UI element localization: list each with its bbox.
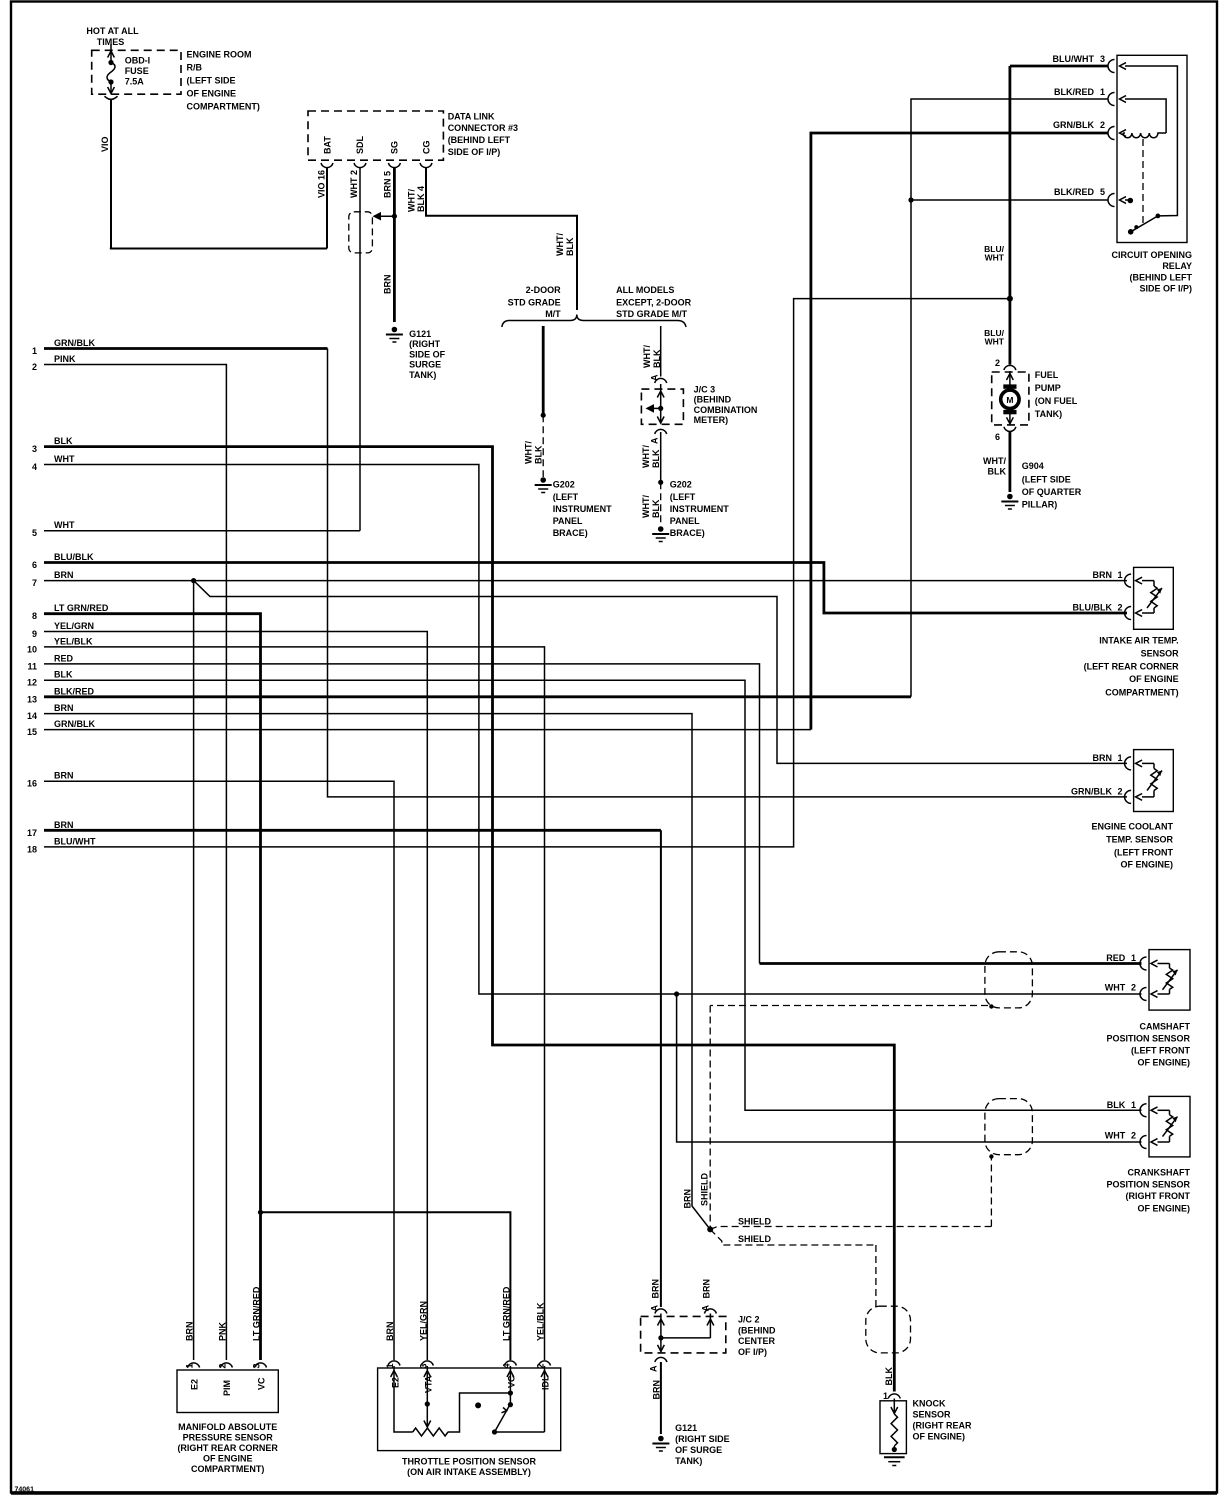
svg-text:POSITION SENSOR: POSITION SENSOR	[1106, 1179, 1190, 1189]
wire BRN J/C2 to G121	[660, 1362, 662, 1434]
svg-text:(LEFT FRONT: (LEFT FRONT	[1114, 847, 1173, 857]
svg-text:(LEFT SIDE: (LEFT SIDE	[1022, 475, 1071, 485]
svg-text:CONNECTOR #3: CONNECTOR #3	[448, 123, 518, 133]
svg-text:1: 1	[1100, 87, 1105, 97]
svg-text:YEL/GRN: YEL/GRN	[54, 621, 94, 631]
svg-text:M: M	[1006, 395, 1013, 405]
svg-text:OF ENGINE: OF ENGINE	[203, 1454, 253, 1464]
svg-text:VIO 16: VIO 16	[317, 170, 327, 198]
svg-text:GRN/BLK: GRN/BLK	[54, 338, 95, 348]
svg-text:16: 16	[27, 779, 37, 789]
svg-text:TANK): TANK)	[1035, 409, 1062, 419]
svg-text:SIDE OF: SIDE OF	[409, 349, 446, 359]
shield crankshaft cable	[985, 1099, 1033, 1155]
svg-text:BLK: BLK	[54, 670, 73, 680]
ground G202 right	[658, 526, 664, 532]
svg-text:8: 8	[32, 611, 37, 621]
svg-text:CAMSHAFT: CAMSHAFT	[1140, 1022, 1191, 1032]
svg-text:OF ENGINE): OF ENGINE)	[1120, 859, 1173, 869]
svg-text:OF QUARTER: OF QUARTER	[1022, 487, 1082, 497]
svg-text:VTA: VTA	[423, 1375, 433, 1393]
svg-text:CRANKSHAFT: CRANKSHAFT	[1128, 1167, 1191, 1177]
wire W3 BLK to knock sensor	[44, 447, 894, 1392]
wire W13 BLK/RED to circuit opening relay pin 1	[911, 99, 1109, 697]
svg-text:DATA LINK: DATA LINK	[448, 112, 495, 122]
svg-text:CENTER: CENTER	[738, 1336, 776, 1346]
svg-text:OF SURGE: OF SURGE	[675, 1445, 722, 1455]
wire W4 WHT branch to crankshaft position sensor pin 2	[677, 994, 1142, 1142]
svg-text:1: 1	[1118, 570, 1123, 580]
svg-text:RED: RED	[54, 653, 74, 663]
svg-text:(RIGHT REAR CORNER: (RIGHT REAR CORNER	[177, 1443, 278, 1453]
svg-text:LT GRN/RED: LT GRN/RED	[252, 1286, 262, 1341]
svg-text:74061: 74061	[15, 1487, 35, 1494]
svg-text:BRN: BRN	[1093, 570, 1113, 580]
svg-text:WHT: WHT	[1105, 1131, 1126, 1141]
svg-text:5: 5	[1100, 187, 1105, 197]
svg-text:GRN/BLK: GRN/BLK	[1071, 787, 1112, 797]
svg-text:THROTTLE POSITION SENSOR: THROTTLE POSITION SENSOR	[402, 1457, 537, 1467]
svg-text:OF ENGINE): OF ENGINE)	[1137, 1057, 1190, 1067]
svg-text:BRN: BRN	[54, 570, 74, 580]
svg-text:COMBINATION: COMBINATION	[694, 405, 758, 415]
wire BLU/WHT relay to fuel pump	[1009, 66, 1012, 365]
svg-text:15: 15	[27, 727, 37, 737]
node junction W7	[191, 578, 196, 583]
svg-text:PUMP: PUMP	[1035, 383, 1061, 393]
svg-text:(BEHIND: (BEHIND	[738, 1325, 776, 1335]
svg-text:PNK: PNK	[217, 1321, 227, 1341]
TPS potentiometer	[394, 1380, 413, 1432]
svg-text:PANEL: PANEL	[553, 516, 583, 526]
svg-text:BRN: BRN	[383, 275, 393, 295]
ground G121 (SG)	[392, 327, 398, 333]
svg-text:RED: RED	[1106, 953, 1126, 963]
node junction W13	[908, 197, 913, 202]
svg-text:STD GRADE: STD GRADE	[508, 297, 561, 307]
svg-text:WHT/: WHT/	[642, 345, 652, 368]
wire WHT/BLK all-models branch	[660, 326, 662, 377]
wire W17 BRN to J/C 2 pin A	[660, 830, 662, 1307]
wire VIO fuse to DLC BAT	[110, 100, 112, 249]
svg-text:E2: E2	[189, 1379, 199, 1390]
svg-text:(RIGHT REAR: (RIGHT REAR	[913, 1420, 972, 1430]
wire W9 YEL/GRN to TPS VTA	[44, 632, 427, 1361]
svg-text:11: 11	[27, 661, 37, 671]
svg-text:SENSOR: SENSOR	[1141, 649, 1180, 659]
svg-text:1: 1	[883, 1391, 888, 1401]
svg-text:BLK: BLK	[988, 467, 1007, 477]
ground G904	[1007, 494, 1013, 500]
svg-text:INSTRUMENT: INSTRUMENT	[553, 504, 612, 514]
svg-text:WHT/: WHT/	[555, 233, 565, 256]
svg-text:EXCEPT, 2-DOOR: EXCEPT, 2-DOOR	[616, 297, 692, 307]
svg-text:BLK: BLK	[565, 237, 575, 256]
sensor intake air temp box	[1134, 567, 1174, 629]
svg-text:COMPARTMENT): COMPARTMENT)	[1105, 687, 1178, 697]
ground knock sensor	[884, 1456, 905, 1458]
svg-text:5: 5	[32, 528, 37, 538]
svg-text:BLK: BLK	[54, 436, 73, 446]
svg-text:BRN: BRN	[683, 1189, 693, 1209]
svg-text:BLK/RED: BLK/RED	[1054, 87, 1094, 97]
svg-text:YEL/BLK: YEL/BLK	[54, 636, 93, 646]
svg-text:BRN: BRN	[652, 1380, 662, 1400]
wire shield to crankshaft	[710, 1227, 991, 1230]
shield knock cable	[866, 1306, 911, 1353]
wire shield vertical	[709, 1006, 711, 1230]
svg-text:SURGE: SURGE	[409, 360, 441, 370]
svg-text:7: 7	[32, 578, 37, 588]
svg-text:A: A	[649, 1365, 659, 1372]
wire W8 LT GRN/RED branch to TPS VC	[261, 1212, 511, 1360]
TPS floating contact dot	[475, 1402, 481, 1408]
wire WHT/BLK below J/C3	[660, 432, 662, 482]
pin A bottom J/C2	[655, 1357, 667, 1362]
svg-text:(LEFT: (LEFT	[670, 492, 696, 502]
svg-text:WHT/: WHT/	[524, 441, 534, 464]
svg-text:SIDE OF I/P): SIDE OF I/P)	[1139, 284, 1192, 294]
svg-text:G202: G202	[553, 480, 575, 490]
svg-text:6: 6	[32, 560, 37, 570]
svg-text:PANEL: PANEL	[670, 516, 700, 526]
svg-text:RELAY: RELAY	[1162, 261, 1192, 271]
svg-text:2: 2	[1100, 120, 1105, 130]
shield camshaft cable	[985, 952, 1033, 1008]
svg-text:PRESSURE SENSOR: PRESSURE SENSOR	[183, 1433, 274, 1443]
svg-text:ENGINE COOLANT: ENGINE COOLANT	[1091, 822, 1173, 832]
sensor crankshaft position box	[1149, 1096, 1190, 1157]
svg-text:PINK: PINK	[54, 354, 76, 364]
svg-text:G202: G202	[670, 480, 692, 490]
TPS idle switch	[492, 1429, 497, 1434]
svg-text:YEL/GRN: YEL/GRN	[418, 1301, 428, 1341]
wire W5 WHT to DLC SDL	[44, 530, 360, 532]
svg-text:METER): METER)	[694, 415, 729, 425]
ground G121 lower	[658, 1436, 664, 1442]
svg-text:(RIGHT SIDE: (RIGHT SIDE	[675, 1434, 730, 1444]
svg-text:LT GRN/RED: LT GRN/RED	[54, 603, 109, 613]
junction connector J/C 2 box	[641, 1316, 726, 1353]
svg-text:INSTRUMENT: INSTRUMENT	[670, 504, 729, 514]
svg-text:SIDE OF I/P): SIDE OF I/P)	[448, 147, 501, 157]
svg-text:HOT AT ALL: HOT AT ALL	[86, 26, 139, 36]
svg-text:J/C 2: J/C 2	[738, 1315, 760, 1325]
svg-text:FUSE: FUSE	[125, 66, 149, 76]
svg-text:PILLAR): PILLAR)	[1022, 500, 1058, 510]
svg-text:WHT/: WHT/	[641, 445, 651, 468]
svg-text:BLU/BLK: BLU/BLK	[1073, 603, 1113, 613]
TPS VC node	[509, 1380, 511, 1405]
svg-text:2: 2	[995, 358, 1000, 368]
svg-text:BLK: BLK	[534, 445, 544, 464]
svg-text:(LEFT REAR CORNER: (LEFT REAR CORNER	[1084, 662, 1179, 672]
svg-text:BRN: BRN	[54, 703, 74, 713]
wire shield to knock sensor	[710, 1229, 876, 1245]
svg-text:COMPARTMENT): COMPARTMENT)	[187, 102, 260, 112]
svg-text:(LEFT FRONT: (LEFT FRONT	[1131, 1046, 1190, 1056]
svg-text:(ON FUEL: (ON FUEL	[1035, 396, 1078, 406]
wire W7 BRN to intake air temp sensor pin 1	[44, 580, 1127, 582]
wire W1 GRN/BLK stub	[44, 347, 328, 350]
node junction on SG wire	[392, 214, 397, 219]
svg-text:BRACE): BRACE)	[553, 528, 588, 538]
connector DLC3 box	[308, 111, 443, 160]
svg-text:OBD-I: OBD-I	[125, 56, 151, 66]
svg-text:2: 2	[1131, 983, 1136, 993]
wire W12 BLK to crankshaft position sensor pin 1	[44, 680, 1142, 1110]
svg-text:(BEHIND LEFT: (BEHIND LEFT	[448, 135, 511, 145]
svg-text:BLK/RED: BLK/RED	[54, 686, 94, 696]
wire W14 BRN toward J/C 2	[44, 714, 710, 1230]
svg-text:ALL MODELS: ALL MODELS	[616, 285, 674, 295]
svg-text:G121: G121	[409, 329, 431, 339]
svg-text:VIO: VIO	[100, 136, 110, 152]
fuel pump connector pin 6	[1004, 427, 1016, 432]
svg-text:2-DOOR: 2-DOOR	[526, 285, 562, 295]
svg-text:SHIELD: SHIELD	[738, 1217, 772, 1227]
sensor TPS box	[378, 1368, 561, 1451]
relay actuation dashed link	[1142, 139, 1144, 223]
svg-text:A: A	[650, 437, 660, 444]
wire W15 GRN/BLK stub	[44, 729, 811, 731]
svg-text:9: 9	[32, 629, 37, 639]
inline connector on SDL wire	[349, 212, 373, 253]
svg-text:1: 1	[1118, 753, 1123, 763]
svg-text:2: 2	[1131, 1131, 1136, 1141]
svg-text:(LEFT SIDE: (LEFT SIDE	[187, 76, 236, 86]
svg-text:ENGINE ROOM: ENGINE ROOM	[187, 50, 252, 60]
svg-text:TANK): TANK)	[675, 1456, 702, 1466]
svg-text:6: 6	[995, 432, 1000, 442]
svg-text:CG: CG	[422, 141, 432, 155]
svg-text:3: 3	[1100, 54, 1105, 64]
svg-text:(LEFT: (LEFT	[553, 492, 579, 502]
svg-text:WHT: WHT	[1105, 983, 1126, 993]
svg-text:GRN/BLK: GRN/BLK	[54, 719, 95, 729]
svg-text:(BEHIND LEFT: (BEHIND LEFT	[1130, 273, 1193, 283]
svg-text:BRN: BRN	[385, 1322, 395, 1342]
svg-text:BRN: BRN	[1093, 753, 1113, 763]
svg-text:GRN/BLK: GRN/BLK	[1053, 120, 1094, 130]
svg-text:BLU/BLK: BLU/BLK	[54, 552, 94, 562]
svg-text:LT GRN/RED: LT GRN/RED	[501, 1286, 511, 1341]
ground G202 left	[540, 477, 546, 483]
svg-text:BRN: BRN	[54, 820, 74, 830]
node junction BLU/WHT	[1007, 296, 1013, 302]
relay coil	[1125, 99, 1166, 133]
svg-text:OF ENGINE: OF ENGINE	[1129, 674, 1179, 684]
svg-text:BRN: BRN	[702, 1279, 712, 1299]
svg-text:WHT/: WHT/	[983, 456, 1006, 466]
wire WHT/BLK from CG	[426, 168, 577, 311]
svg-text:BLK: BLK	[651, 449, 661, 468]
svg-text:WHT 2: WHT 2	[349, 170, 359, 198]
svg-text:BLK: BLK	[884, 1367, 894, 1386]
svg-text:2: 2	[32, 362, 37, 372]
svg-text:WHT: WHT	[54, 520, 75, 530]
svg-text:STD GRADE M/T: STD GRADE M/T	[616, 309, 688, 319]
svg-text:KNOCK: KNOCK	[913, 1399, 946, 1409]
svg-text:IDL: IDL	[541, 1375, 551, 1390]
svg-text:1: 1	[1131, 953, 1136, 963]
svg-text:WHT: WHT	[54, 454, 75, 464]
svg-text:2: 2	[1118, 787, 1123, 797]
sensor engine coolant temp box	[1134, 750, 1174, 812]
svg-text:SHIELD: SHIELD	[700, 1172, 710, 1206]
svg-text:BLK: BLK	[651, 499, 661, 518]
svg-text:14: 14	[27, 711, 37, 721]
svg-text:G904: G904	[1022, 461, 1044, 471]
wire W6 BLU/BLK to intake air temp sensor pin 2	[44, 563, 1127, 614]
svg-text:J/C 3: J/C 3	[694, 385, 716, 395]
relay internal contact wiring	[1125, 66, 1177, 216]
svg-text:BRN: BRN	[185, 1322, 195, 1342]
svg-text:VC: VC	[506, 1375, 516, 1388]
svg-text:VC: VC	[257, 1377, 267, 1390]
svg-text:(RIGHT: (RIGHT	[409, 339, 440, 349]
svg-text:PIM: PIM	[222, 1380, 232, 1396]
node junction W4 branch	[674, 991, 679, 996]
svg-text:(RIGHT FRONT: (RIGHT FRONT	[1126, 1191, 1191, 1201]
svg-text:2: 2	[1118, 603, 1123, 613]
svg-text:10: 10	[27, 644, 37, 654]
TPS wiper VTA	[426, 1380, 428, 1427]
relay internal pin5 contact	[1125, 199, 1130, 201]
svg-text:(BEHIND: (BEHIND	[694, 395, 732, 405]
wire WHT/BLK 2-door branch	[542, 326, 545, 415]
svg-text:SDL: SDL	[355, 135, 365, 154]
wire W2 PINK to MAP sensor PIM	[44, 365, 226, 1361]
svg-text:BLK: BLK	[1107, 1100, 1126, 1110]
relay circuit opening relay box	[1117, 55, 1187, 242]
svg-text:BLU/WHT: BLU/WHT	[1053, 54, 1095, 64]
wire W8 LT GRN/RED to MAP sensor VC	[44, 614, 261, 1360]
svg-text:COMPARTMENT): COMPARTMENT)	[191, 1464, 264, 1474]
svg-text:CIRCUIT OPENING: CIRCUIT OPENING	[1111, 250, 1192, 260]
svg-text:SG: SG	[390, 141, 400, 154]
wire W16 BRN to TPS E2	[44, 781, 394, 1360]
wire W17 BRN stub	[44, 829, 661, 832]
svg-text:SENSOR: SENSOR	[913, 1409, 952, 1419]
fuel pump M1	[992, 372, 1029, 425]
svg-text:YEL/BLK: YEL/BLK	[536, 1302, 546, 1341]
svg-text:12: 12	[27, 678, 37, 688]
svg-text:18: 18	[27, 844, 37, 854]
svg-text:SHIELD: SHIELD	[738, 1234, 772, 1244]
wire W11 RED vertical	[44, 664, 760, 964]
pickup coil crankshaft	[1158, 1109, 1170, 1111]
svg-text:M/T: M/T	[545, 309, 561, 319]
wire W4 WHT to camshaft position sensor pin 2	[44, 465, 1142, 995]
node junction W8	[258, 1210, 263, 1215]
svg-text:OF I/P): OF I/P)	[738, 1347, 767, 1357]
fuse OBD-I 7.5A	[92, 50, 181, 94]
svg-text:E2: E2	[391, 1377, 401, 1388]
node shield junction	[707, 1226, 713, 1232]
svg-text:1: 1	[32, 346, 37, 356]
svg-text:13: 13	[27, 694, 37, 704]
svg-text:WHT: WHT	[985, 337, 1005, 347]
wire W13 BLK/RED branch to relay pin 5	[911, 199, 1109, 201]
wire W15 GRN/BLK to circuit opening relay pin 2	[811, 133, 1109, 730]
pickup coil camshaft	[1158, 963, 1170, 965]
wire W13 BLK/RED stub	[44, 695, 911, 698]
wire W1 GRN/BLK to engine coolant temp sensor pin 2	[328, 349, 1128, 797]
sensor camshaft position box	[1149, 950, 1190, 1011]
svg-text:POSITION SENSOR: POSITION SENSOR	[1106, 1034, 1190, 1044]
svg-text:INTAKE AIR TEMP.: INTAKE AIR TEMP.	[1099, 636, 1178, 646]
svg-text:17: 17	[27, 828, 37, 838]
wire W18 BLU/WHT to fuel pump node	[44, 299, 1010, 847]
svg-text:A: A	[650, 1305, 660, 1312]
thermistor coolant	[1142, 762, 1154, 764]
svg-text:OF ENGINE): OF ENGINE)	[913, 1431, 966, 1441]
svg-text:WHT/: WHT/	[407, 189, 417, 212]
connector bump under fuse	[105, 96, 118, 99]
junction connector J/C 3	[641, 389, 683, 424]
svg-text:4: 4	[32, 462, 37, 472]
svg-text:WHT: WHT	[985, 253, 1005, 263]
J/C2 internal	[660, 1314, 662, 1338]
wire WHT/BLK fuel pump to G904	[1009, 432, 1012, 492]
wire W7 BRN branch to engine coolant temp sensor pin 1	[194, 581, 1127, 764]
svg-text:BRACE): BRACE)	[670, 528, 705, 538]
wire W7 BRN branch to MAP sensor E2	[193, 581, 195, 1360]
svg-text:OF ENGINE: OF ENGINE	[187, 89, 237, 99]
wire W11 RED to camshaft position sensor pin 1	[760, 962, 1142, 965]
sensor MAP box	[177, 1370, 278, 1413]
svg-text:BRN: BRN	[651, 1279, 661, 1299]
svg-text:BAT: BAT	[323, 136, 333, 154]
svg-text:BLU/WHT: BLU/WHT	[54, 836, 96, 846]
thermistor intake	[1142, 580, 1154, 582]
svg-text:MANIFOLD ABSOLUTE: MANIFOLD ABSOLUTE	[178, 1422, 277, 1432]
svg-text:BRN 5: BRN 5	[383, 171, 393, 198]
svg-text:WHT/: WHT/	[641, 495, 651, 518]
svg-text:FUEL: FUEL	[1035, 370, 1059, 380]
svg-text:G121: G121	[675, 1423, 697, 1433]
svg-text:(ON AIR INTAKE ASSEMBLY): (ON AIR INTAKE ASSEMBLY)	[407, 1467, 531, 1477]
svg-text:OF ENGINE): OF ENGINE)	[1137, 1203, 1190, 1213]
svg-text:3: 3	[32, 444, 37, 454]
svg-text:BLK: BLK	[652, 349, 662, 368]
svg-text:TEMP. SENSOR: TEMP. SENSOR	[1106, 834, 1173, 844]
svg-text:BLK 4: BLK 4	[416, 186, 426, 212]
svg-text:R/B: R/B	[187, 63, 203, 73]
svg-text:7.5A: 7.5A	[125, 77, 145, 87]
wire W10 YEL/BLK to TPS IDL	[44, 647, 545, 1360]
wire shield drain from camshaft	[710, 1005, 988, 1007]
svg-text:1: 1	[1131, 1100, 1136, 1110]
svg-text:TANK): TANK)	[409, 370, 436, 380]
svg-text:A: A	[650, 374, 660, 381]
svg-text:BRN: BRN	[54, 771, 74, 781]
svg-text:BLK/RED: BLK/RED	[1054, 187, 1094, 197]
